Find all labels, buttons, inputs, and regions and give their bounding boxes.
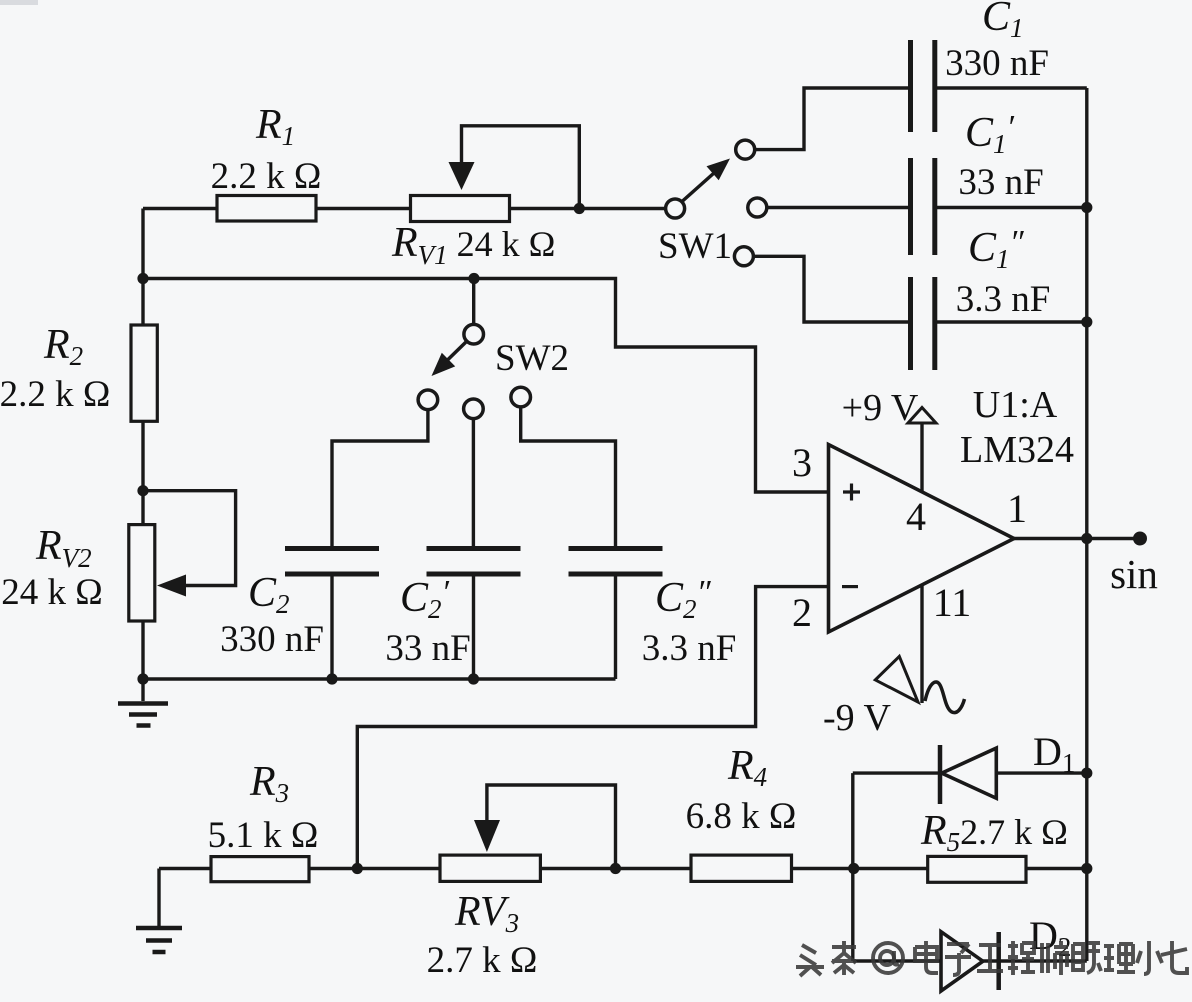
svg-text:U1:A: U1:A xyxy=(973,384,1058,426)
svg-text:SW2: SW2 xyxy=(495,338,569,379)
svg-text:sin: sin xyxy=(1110,551,1158,597)
svg-text:2.7 k Ω: 2.7 k Ω xyxy=(427,940,538,981)
svg-text:LM324: LM324 xyxy=(960,429,1074,471)
svg-text:6.8 k Ω: 6.8 k Ω xyxy=(686,796,797,837)
svg-text:-9 V: -9 V xyxy=(823,697,891,739)
svg-text:5.1 k Ω: 5.1 k Ω xyxy=(208,815,319,856)
svg-text:11: 11 xyxy=(933,580,972,625)
svg-text:2.2 k Ω: 2.2 k Ω xyxy=(0,374,110,415)
svg-text:24 k Ω: 24 k Ω xyxy=(1,572,103,613)
svg-text:3.3 nF: 3.3 nF xyxy=(642,628,737,669)
svg-text:RV1 24 k Ω: RV1 24 k Ω xyxy=(391,220,555,270)
svg-text:2.2 k Ω: 2.2 k Ω xyxy=(211,156,322,197)
svg-text:4: 4 xyxy=(906,494,926,539)
svg-text:33 nF: 33 nF xyxy=(385,628,470,669)
svg-text:+9 V: +9 V xyxy=(842,387,919,429)
svg-text:2: 2 xyxy=(792,590,812,635)
svg-text:SW1: SW1 xyxy=(658,226,732,267)
svg-text:330 nF: 330 nF xyxy=(220,619,324,660)
svg-text:33 nF: 33 nF xyxy=(958,162,1043,203)
svg-text:1: 1 xyxy=(1007,486,1027,531)
svg-text:3: 3 xyxy=(792,440,812,485)
svg-text:330 nF: 330 nF xyxy=(945,43,1049,84)
svg-text:R52.7 k Ω: R52.7 k Ω xyxy=(920,808,1068,857)
svg-text:3.3 nF: 3.3 nF xyxy=(956,279,1051,320)
